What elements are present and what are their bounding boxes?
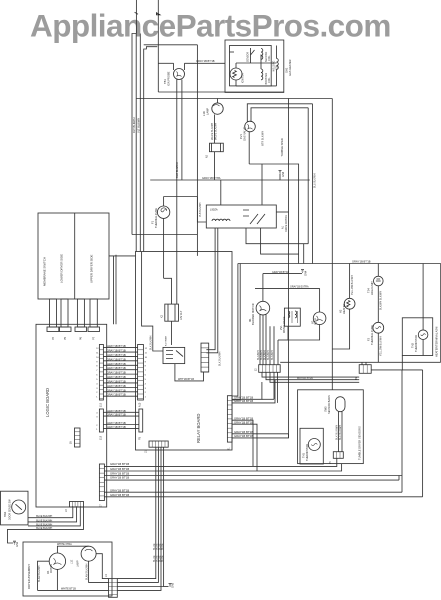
svg-text:GRAY'1B EXTRA: GRAY'1B EXTRA: [290, 286, 309, 289]
svg-text:MEMBRANE SWITCH: MEMBRANE SWITCH: [43, 257, 47, 286]
wire relay internal bus: [142, 252, 163, 351]
wire FV1 feed inner corner: [251, 108, 308, 122]
wire door to logic 1: [28, 506, 73, 518]
wire TH2 bottom: [422, 340, 424, 356]
wire logic-relay pin 9: [103, 382, 137, 384]
door sense switch box: [1, 491, 29, 525]
svg-text:SW2: SW2: [4, 511, 7, 517]
svg-text:BLUE BLK/WH: BLUE BLK/WH: [36, 523, 52, 526]
wire horizontal under gas box y92: [158, 91, 283, 93]
svg-text:GRAY'1B BT'1B: GRAY'1B BT'1B: [107, 421, 126, 425]
wire ground spur: [164, 586, 169, 588]
svg-text:4: 4: [96, 383, 98, 385]
svg-text:9: 9: [96, 361, 98, 363]
svg-text:GRAY'1B BT'1B: GRAY'1B BT'1B: [110, 467, 129, 471]
wire logic-relay pin 10: [103, 386, 137, 388]
heater H2 circle: [344, 298, 355, 309]
logic board middle connector J8: [75, 428, 81, 447]
wire N feed from top: [157, 0, 159, 92]
svg-text:3: 3: [145, 388, 147, 390]
svg-text:11: 11: [96, 352, 99, 354]
svg-text:8: 8: [145, 366, 147, 368]
wire relay out 2: [232, 380, 275, 403]
wire VV1 bottom: [287, 326, 289, 340]
sensor bars SW5 capsule: [335, 397, 345, 412]
wire strip to A1 pin 2: [206, 228, 217, 353]
wire SW5 down: [338, 412, 340, 452]
svg-text:K1 TIMER: K1 TIMER: [166, 336, 168, 346]
svg-text:VALVE BLK/WH: VALVE BLK/WH: [211, 123, 214, 140]
svg-text:GRAY'1B BT'1B: GRAY'1B BT'1B: [107, 362, 126, 366]
svg-text:SENSOR BARS: SENSOR BARS: [327, 395, 331, 414]
svg-text:DRIVE MOTOR: DRIVE MOTOR: [285, 215, 288, 232]
svg-text:WHITE XTRA: WHITE XTRA: [57, 543, 72, 546]
door sense switch SW2 circle: [12, 500, 26, 514]
wire TH2 to J6: [371, 356, 402, 370]
gas valve FV1 circle: [245, 121, 256, 132]
wire M1 bottom drops to J2: [259, 315, 261, 365]
svg-text:TUMBLE DRYER SENSORS: TUMBLE DRYER SENSORS: [358, 426, 362, 460]
wire H2 down-left: [332, 309, 349, 349]
svg-text:TUMBLE SPED: TUMBLE SPED: [280, 138, 284, 156]
svg-text:F1: F1: [151, 220, 155, 224]
svg-text:A10: A10: [139, 402, 142, 407]
svg-text:SW5: SW5: [324, 406, 328, 412]
relay board box: [136, 252, 233, 451]
svg-text:12: 12: [96, 348, 99, 350]
wire logic-relay pin 7: [103, 373, 137, 375]
ground G1: [13, 541, 16, 544]
svg-text:RLY BLK/WH: RLY BLK/WH: [132, 117, 136, 133]
svg-text:MOTOR XTRA: MOTOR XTRA: [297, 377, 313, 380]
ribbon cap 2: [60, 327, 72, 332]
relay board internal connector strip: [201, 343, 209, 372]
svg-text:TH2: TH2: [411, 343, 415, 348]
svg-text:GRAY'1B BT'1B: GRAY'1B BT'1B: [107, 349, 126, 353]
svg-text:HIGH LIMIT: HIGH LIMIT: [370, 281, 374, 295]
wire door to logic 3: [28, 506, 80, 526]
svg-text:MOTOR: MOTOR: [50, 564, 53, 573]
svg-text:GRAY'1B BT'1B: GRAY'1B BT'1B: [107, 409, 126, 413]
svg-text:YELLOW BLK/WH: YELLOW BLK/WH: [380, 336, 383, 356]
pin tick on N feed: [157, 13, 160, 15]
wire bus B vertical: [135, 34, 137, 252]
secondary coil: [261, 49, 263, 60]
ground G5: [169, 584, 172, 587]
svg-text:BLK/WH BLK/WH: BLK/WH BLK/WH: [380, 291, 383, 310]
svg-text:2: 2: [96, 425, 98, 427]
wire blower top y273.6 with ground: [263, 273, 300, 275]
svg-text:GRAY'1B BT'1B: GRAY'1B BT'1B: [107, 353, 126, 357]
svg-text:GRAY'1B BT'1B: GRAY'1B BT'1B: [107, 371, 126, 375]
wire bus C vertical: [139, 34, 141, 252]
svg-text:P6: P6: [80, 336, 83, 340]
wire M2 bottom: [288, 325, 320, 340]
wire lamp bottom: [89, 561, 109, 582]
wire gas box left vertical: [196, 45, 198, 256]
wire logic-relay aux pin: [103, 424, 138, 426]
svg-text:J3: J3: [65, 509, 68, 512]
svg-text:BLUE: BLUE: [161, 555, 164, 562]
wire relay drop 2: [117, 447, 158, 582]
svg-text:9: 9: [145, 361, 147, 363]
wire y180 right segment: [280, 179, 310, 181]
svg-text:DOOR SENSE SW: DOOR SENSE SW: [9, 499, 12, 520]
connector J2 strip: [259, 365, 281, 373]
water valve VV1 box: [284, 308, 300, 326]
lamp L1E circle: [81, 546, 96, 561]
ribbon cap 4: [88, 327, 100, 332]
wire logic-relay pin 8: [103, 378, 137, 380]
wire logic-relay aux pin: [103, 411, 138, 413]
svg-text:TB1: TB1: [163, 79, 167, 84]
svg-text:BLK/WH: BLK/WH: [271, 350, 274, 360]
svg-text:GN1: GN1: [16, 541, 19, 547]
membrane ribbon pin 2: [61, 299, 68, 327]
wire N feed to TB1: [158, 62, 173, 64]
svg-text:P5: P5: [64, 336, 67, 340]
svg-text:J5: J5: [329, 461, 332, 464]
svg-text:BLUE BLK/WH: BLUE BLK/WH: [36, 515, 52, 518]
svg-text:GRAY'1B BT'1B: GRAY'1B BT'1B: [352, 260, 371, 264]
wire long vertical x288: [288, 99, 290, 438]
svg-text:LAMP: LAMP: [206, 108, 210, 115]
svg-text:K2: K2: [161, 314, 164, 318]
svg-text:L1E: L1E: [71, 559, 74, 564]
svg-text:F2: F2: [367, 337, 371, 341]
svg-text:COIL: COIL: [268, 77, 271, 83]
svg-text:GRAY'1B BT'1B: GRAY'1B BT'1B: [107, 379, 126, 383]
wire F1 top: [163, 197, 165, 207]
wire relay drop 4: [117, 447, 163, 586]
svg-text:BLK/WH: BLK/WH: [263, 350, 266, 360]
wire relay right to long vertical: [276, 211, 288, 213]
wire horizontal to gas box left column: [144, 44, 198, 46]
pin tick on L1 feed: [135, 12, 138, 14]
thermistor TH1 circle: [308, 439, 320, 451]
svg-text:10: 10: [145, 357, 148, 359]
svg-text:GRAY'1B BT'8A: GRAY'1B BT'8A: [202, 176, 221, 180]
svg-text:BLK BLK/WH: BLK BLK/WH: [339, 425, 342, 440]
wire drop to heater top: [303, 244, 305, 264]
svg-text:GRAY'1B BT'1B: GRAY'1B BT'1B: [107, 366, 126, 370]
membrane ribbon pin 1: [50, 299, 57, 327]
ribbon cap 3: [75, 327, 87, 332]
tumble dryer sensors box: [298, 390, 364, 464]
svg-text:2: 2: [96, 392, 98, 394]
wire logic-relay pin 4: [103, 360, 137, 362]
svg-text:L90ZA: L90ZA: [210, 208, 218, 212]
wire bottom bus 6: [104, 496, 422, 498]
wire logic-relay aux pin: [103, 427, 138, 429]
svg-text:GRAY'1B BT'1B: GRAY'1B BT'1B: [272, 271, 289, 274]
svg-text:THERMISTOR: THERMISTOR: [305, 444, 309, 461]
wire FV1 right drop inner: [307, 108, 309, 244]
svg-text:AppliancePartsPros.com: AppliancePartsPros.com: [30, 7, 391, 43]
wire M1 top: [262, 274, 264, 302]
logic board connector strip P1: [99, 345, 103, 401]
svg-text:10: 10: [96, 357, 99, 359]
wire valve to relay A1 top: [261, 164, 263, 205]
wire TS4 to F2: [377, 286, 379, 323]
svg-text:GRAY'1B BT'1B: GRAY'1B BT'1B: [110, 462, 129, 466]
relay board output connector strip: [227, 396, 232, 442]
svg-text:GRAY'1B BT'1B: GRAY'1B BT'1B: [107, 357, 126, 361]
svg-text:11: 11: [145, 352, 148, 354]
svg-text:M1: M1: [248, 318, 252, 322]
svg-text:LAMP: LAMP: [77, 560, 80, 567]
svg-text:1: 1: [145, 397, 147, 399]
wire bundle J2 to J6 2: [266, 372, 359, 379]
svg-text:GRAY'1B BT'1B: GRAY'1B BT'1B: [107, 384, 126, 388]
wire TB1 down to relay board: [176, 80, 178, 305]
svg-text:GN4: GN4: [305, 270, 308, 276]
wire M2 top: [319, 288, 321, 312]
svg-text:2: 2: [145, 392, 147, 394]
svg-text:J10: J10: [100, 402, 103, 407]
svg-text:RLB BLK/WH: RLB BLK/WH: [175, 162, 179, 178]
svg-text:BLK BLK/WH: BLK BLK/WH: [219, 351, 222, 366]
svg-text:THERMISTOR: THERMISTOR: [414, 335, 418, 352]
svg-text:BLOWER MOTOR: BLOWER MOTOR: [251, 303, 255, 325]
svg-text:WATER VALVE: WATER VALVE: [283, 316, 286, 333]
wire bus D vertical: [144, 47, 158, 252]
logic board lower-right connector strip: [99, 464, 104, 501]
svg-text:GRAY'1B BT'1B: GRAY'1B BT'1B: [110, 476, 129, 480]
relay board bottom connector J1b: [149, 441, 168, 447]
wire FV1 feed outer corner: [247, 104, 312, 122]
svg-text:4: 4: [145, 383, 147, 385]
wire L1 feed from top: [135, 0, 137, 34]
gas heater inner box: [230, 46, 272, 86]
wire H2 top: [349, 264, 351, 299]
wire relay out 3b: [232, 424, 257, 471]
svg-text:P4: P4: [52, 336, 55, 340]
wire logic-relay pin 11: [103, 391, 137, 393]
heater assembly right edge: [440, 264, 441, 356]
svg-text:PUMP: PUMP: [315, 318, 318, 325]
svg-text:VALVE BLK/WH: VALVE BLK/WH: [214, 123, 217, 140]
svg-text:IGN PROBE: IGN PROBE: [166, 71, 170, 86]
wire y369.9 right extension: [402, 369, 422, 371]
wire relay bottom drop 1: [246, 228, 308, 244]
wire bus A vertical: [132, 34, 136, 235]
wire strip to A1 pin 1: [206, 228, 215, 350]
wire logic-relay pin 5: [103, 364, 137, 366]
svg-text:12: 12: [145, 348, 148, 350]
wire relay out 5: [232, 434, 288, 438]
svg-text:GRAY'1B BT'1B: GRAY'1B BT'1B: [234, 417, 253, 421]
wire right vertical x402: [401, 370, 403, 492]
heater assembly bottom edge: [280, 361, 441, 363]
wire F2 down: [377, 333, 379, 362]
svg-text:TS4: TS4: [367, 288, 371, 293]
wire relay out 4: [232, 433, 288, 435]
svg-text:GN5: GN5: [172, 582, 175, 588]
wire horizontal main y98.5: [136, 98, 332, 100]
thermistor TH2 box: [402, 318, 432, 356]
svg-text:5: 5: [96, 379, 98, 381]
wire logic-relay pin 6: [103, 369, 137, 371]
svg-text:UPPER DRYER SIDE: UPPER DRYER SIDE: [90, 255, 94, 283]
svg-text:GRAY'1B BT'1B: GRAY'1B BT'1B: [107, 344, 126, 348]
wire FV1 right drop outer: [312, 104, 314, 264]
svg-text:1: 1: [96, 397, 98, 399]
svg-text:4: 4: [96, 413, 98, 415]
svg-text:GRAY'1B BT'1B: GRAY'1B BT'1B: [107, 375, 126, 379]
svg-text:GRAY'1B BT'1B: GRAY'1B BT'1B: [107, 425, 126, 429]
svg-text:J4: J4: [105, 574, 108, 577]
wire valve drop to J2: [277, 340, 279, 365]
svg-text:7: 7: [96, 370, 98, 372]
svg-text:BLU BLK/WH: BLU BLK/WH: [314, 173, 317, 188]
svg-text:BLK/WH: BLK/WH: [267, 350, 270, 360]
wire TB1 igniter return: [181, 80, 183, 181]
wire TB1 to gas heater box: [184, 63, 186, 70]
connector J6: [359, 365, 371, 374]
wire motor bottom: [38, 569, 109, 590]
wire ground drop: [279, 174, 281, 180]
relay K2 box: [165, 304, 179, 321]
wire logic-relay pin 2: [103, 351, 137, 353]
relay contact: [250, 214, 265, 224]
svg-text:GRAY'1B BT'1B: GRAY'1B BT'1B: [234, 421, 253, 425]
triac A2 box: [210, 143, 224, 152]
wire vertical x113.5: [113, 256, 115, 324]
svg-text:BLAM BLK/WH: BLAM BLK/WH: [38, 565, 41, 582]
svg-text:GRAY'1B BT'1B: GRAY'1B BT'1B: [110, 471, 129, 475]
wire long vertical right: [331, 99, 333, 390]
svg-text:LOGIC BOARD: LOGIC BOARD: [45, 388, 50, 417]
svg-text:J1: J1: [228, 447, 231, 450]
ground G4: [300, 273, 302, 275]
wire membrane-to-relay y256: [109, 255, 136, 257]
wire K1 bottom to strip: [175, 364, 204, 381]
wire lamp right: [96, 554, 108, 579]
svg-text:5: 5: [145, 379, 147, 381]
svg-text:WHITE BT'1B: WHITE BT'1B: [61, 588, 76, 591]
svg-text:VLT BLK/WH: VLT BLK/WH: [136, 118, 140, 133]
wire relay drop 1: [117, 447, 156, 578]
ground G3: [279, 171, 282, 174]
sensor connector J5: [333, 452, 343, 459]
ribbon cap 1: [47, 327, 59, 332]
wire TS4 top: [377, 264, 379, 277]
svg-text:THERMAL FUSE: THERMAL FUSE: [154, 208, 158, 228]
wire logic-relay pin 12: [103, 395, 137, 397]
svg-text:7: 7: [145, 370, 147, 372]
svg-text:BLUE: BLUE: [161, 543, 164, 550]
svg-text:SENSOR: SENSOR: [247, 52, 250, 62]
pump M2 circle: [313, 312, 326, 325]
wire K2 bottom: [171, 321, 173, 345]
wire lamp to top bus: [217, 99, 219, 103]
membrane divider: [74, 213, 76, 299]
thermistor TH2 circle: [418, 330, 428, 340]
svg-text:GN3: GN3: [282, 171, 285, 177]
svg-text:DRYER ASSEMBLY: DRYER ASSEMBLY: [27, 564, 31, 589]
sensor switch SW gas: [250, 48, 252, 62]
membrane switch box: [38, 213, 109, 299]
high limit TS4 circle: [374, 276, 384, 286]
svg-text:6: 6: [96, 375, 98, 377]
membrane ribbon pin 4: [90, 299, 97, 327]
wire logic-relay aux pin: [103, 415, 138, 417]
svg-text:H2: H2: [339, 309, 343, 313]
wire motor left loop: [38, 561, 50, 590]
svg-text:J7: J7: [100, 504, 103, 507]
wire TH2 top: [422, 264, 424, 330]
svg-text:BLAM BLK/WH: BLAM BLK/WH: [85, 563, 88, 580]
wire horizontal y233 bus into relay area: [132, 234, 197, 236]
wire relay out 3: [232, 420, 253, 466]
svg-text:P7: P7: [93, 336, 96, 340]
thermal fuse F2 circle: [373, 322, 384, 333]
wire F1 bottom: [163, 218, 165, 278]
wire J2 drop down 1: [273, 372, 275, 399]
dryer motor assembly box: [23, 542, 112, 596]
svg-text:GAS VALVE: GAS VALVE: [242, 127, 246, 141]
wire horizontal y180 with ground: [150, 179, 280, 181]
wire relay out 1: [232, 382, 262, 399]
svg-text:RELAY BOARD: RELAY BOARD: [196, 414, 201, 443]
svg-text:3: 3: [96, 417, 98, 419]
svg-text:BLUE BLK/WH: BLUE BLK/WH: [36, 519, 52, 522]
wire bottom bus 2: [104, 464, 341, 471]
svg-text:A2: A2: [206, 154, 209, 158]
svg-text:P3: P3: [139, 436, 142, 440]
svg-text:GRAY'1B BT'1B: GRAY'1B BT'1B: [110, 489, 129, 493]
svg-text:YELLOW BLK/WH: YELLOW BLK/WH: [351, 275, 354, 295]
wire bottom bus 1: [104, 458, 336, 466]
svg-text:3: 3: [96, 388, 98, 390]
wire triac down to y180: [214, 152, 216, 180]
svg-text:8: 8: [96, 366, 98, 368]
relay K1 box: [163, 347, 185, 363]
wire horizontal y164: [249, 164, 298, 264]
wire motor top to lamp top: [57, 546, 88, 553]
svg-text:J1B: J1B: [100, 435, 103, 440]
svg-text:GRAY'1B BT'1B: GRAY'1B BT'1B: [196, 59, 215, 63]
wire logic-relay pin 3: [103, 355, 137, 357]
thermal fuse F1 circle: [157, 206, 169, 218]
igniter I1 circle: [230, 68, 242, 80]
heater assembly top edge: [238, 263, 441, 265]
svg-text:HEATER/TERMINAL ASM: HEATER/TERMINAL ASM: [435, 327, 439, 357]
svg-text:COIL: COIL: [268, 55, 271, 61]
wire J2 drop down 2: [277, 372, 279, 403]
wire relay drop 3: [117, 447, 161, 590]
svg-text:GRAY'1B BT'1B: GRAY'1B BT'1B: [107, 413, 126, 417]
wire door to logic 2: [28, 506, 77, 522]
wire relay up 1: [232, 264, 238, 397]
svg-text:GRAY'1B BT'1B: GRAY'1B BT'1B: [107, 388, 126, 392]
gas heater assembly GH1 outer box: [225, 40, 284, 92]
wire bottom bus 4: [104, 479, 399, 481]
wire F1 top horizontal: [164, 196, 198, 198]
svg-text:PLB BLK/WH: PLB BLK/WH: [199, 202, 202, 217]
svg-text:WHT'1B BT'1B: WHT'1B BT'1B: [178, 378, 194, 381]
logic board bottom connector J3b: [70, 502, 84, 508]
svg-text:L1D: L1D: [202, 111, 206, 116]
svg-text:BLK BLK/WH: BLK BLK/WH: [149, 335, 152, 350]
wire J6 top 1: [361, 362, 363, 364]
wire into relay A1 left: [197, 197, 206, 223]
wire bus4 upturn: [398, 476, 400, 481]
wire relay up 2: [232, 264, 240, 401]
wire J6 top 2: [365, 362, 367, 364]
relay board connector strip P2: [138, 345, 144, 401]
